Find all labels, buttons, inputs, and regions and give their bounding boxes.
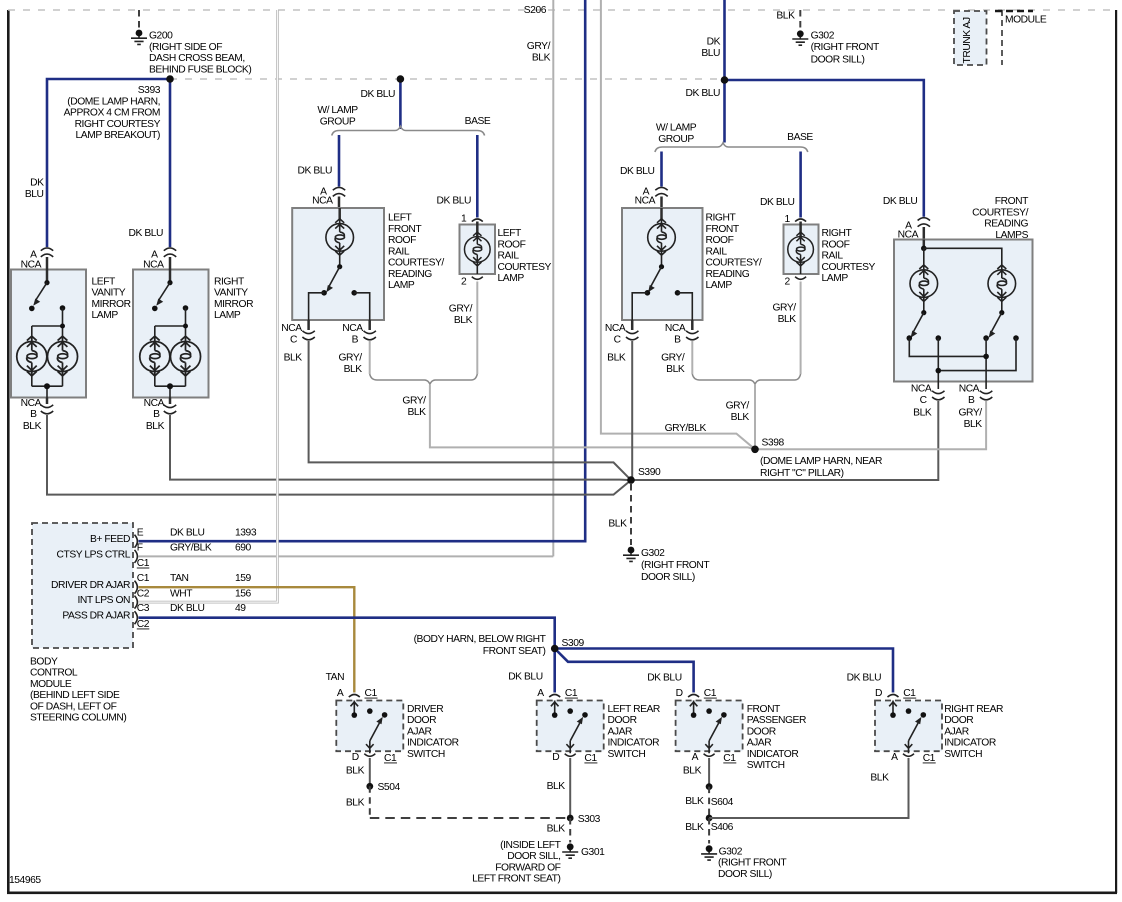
label left vanity [92,276,131,321]
svg-text:GRY/: GRY/ [772,303,796,314]
svg-text:RIGHT "C" PILLAR): RIGHT "C" PILLAR) [760,468,844,479]
svg-text:BLK: BLK [532,52,551,63]
label W/ LAMP GROUP right [656,123,697,145]
svg-text:NCA: NCA [21,398,42,409]
label G200 [149,31,251,76]
wire: DK BLU BASE branch to right roof rail lamp [799,152,802,218]
svg-text:D: D [875,688,882,699]
svg-text:GROUP: GROUP [658,134,694,145]
wire: DK BLU drop at left group junction [399,79,402,129]
svg-text:DK BLU: DK BLU [686,88,721,99]
svg-text:PASS DR AJAR: PASS DR AJAR [62,610,130,621]
svg-text:S604: S604 [711,797,734,808]
connector B NCA (GRY/BLK) right front roof lamp [661,320,698,375]
svg-text:BLK: BLK [547,781,566,792]
svg-text:BLK: BLK [913,408,932,419]
svg-text:DRIVER DR AJAR: DRIVER DR AJAR [51,580,130,591]
svg-text:SWITCH: SWITCH [407,749,445,760]
splice S303 [567,814,601,825]
label DK BLU below junction [686,88,721,99]
wire: BLK right rear switch to S406 [709,758,908,818]
svg-text:BLK: BLK [870,772,889,783]
svg-text:RIGHT REAR: RIGHT REAR [944,704,1003,715]
svg-text:MODULE: MODULE [30,679,72,690]
svg-text:COURTESY/: COURTESY/ [972,207,1028,218]
svg-text:DASH CROSS BEAM,: DASH CROSS BEAM, [149,53,245,64]
label left front roof lamp [388,213,444,292]
svg-text:AJAR: AJAR [944,726,969,737]
svg-text:D: D [552,752,559,763]
connector C NCA (BLK) left front roof lamp [281,320,314,364]
svg-text:DOOR: DOOR [944,715,973,726]
svg-text:1: 1 [461,214,467,225]
pin labels front passenger switch [676,688,737,764]
svg-text:GRY/: GRY/ [958,408,982,419]
wire: DK BLU S309 to right rear switch [555,649,893,693]
svg-text:C1: C1 [903,688,916,699]
svg-text:G302: G302 [641,548,665,559]
svg-text:DK BLU: DK BLU [129,228,164,239]
connector A NCA right front roof lamp [635,187,668,210]
svg-text:C1: C1 [137,573,150,584]
svg-text:INDICATOR: INDICATOR [608,738,660,749]
svg-text:DK BLU: DK BLU [647,673,682,684]
wire: GRY/BLK front courtesy lamps to S398 [755,401,986,449]
wire: dashed distribution rail y79 [170,78,725,80]
svg-text:NCA: NCA [665,323,686,334]
svg-text:DK BLU: DK BLU [437,196,472,207]
svg-text:LAMP: LAMP [498,273,525,284]
svg-text:C1: C1 [923,753,936,764]
wire: GRY/BLK merged right to S398 [754,385,756,449]
svg-text:BLK: BLK [685,796,704,807]
svg-text:BLU: BLU [25,189,44,200]
svg-text:NCA: NCA [281,323,302,334]
label W/ LAMP GROUP left [317,105,358,127]
connector A NCA left vanity [21,248,54,271]
svg-text:G200: G200 [149,31,173,42]
label TAN [326,672,344,683]
svg-text:S393: S393 [138,85,161,96]
wire: GRY/BLK left roof rail lamp to merge brace [476,282,478,375]
svg-text:DK BLU: DK BLU [170,527,205,538]
svg-text:FRONT: FRONT [747,704,781,715]
label G302 top [811,31,880,66]
wire: BLK front courtesy lamps to S390 [631,401,938,480]
svg-text:FRONT: FRONT [706,224,740,235]
wire: BLK left rear switch to S303 [547,758,571,818]
svg-text:DK BLU: DK BLU [170,603,205,614]
svg-text:VANITY: VANITY [214,288,248,299]
label GRY/BLK of S206 wire [527,41,551,63]
ground G301 [562,843,605,858]
svg-text:BLK: BLK [23,421,42,432]
wire: BLK front passenger switch to S604 [683,758,709,787]
svg-text:B+ FEED: B+ FEED [90,534,130,545]
svg-text:GROUP: GROUP [320,116,356,127]
ground G302 middle [623,547,639,562]
svg-text:DOOR SILL,: DOOR SILL, [507,851,560,862]
svg-text:DOOR: DOOR [407,715,436,726]
svg-text:NCA: NCA [911,384,932,395]
svg-text:1393: 1393 [235,527,257,538]
node: DK BLU junction dot [721,76,729,84]
svg-text:BLK: BLK [964,419,983,430]
svg-text:C1: C1 [584,753,597,764]
svg-text:(BODY HARN, BELOW RIGHT: (BODY HARN, BELOW RIGHT [414,634,547,645]
svg-text:DK BLU: DK BLU [361,89,396,100]
svg-text:C1: C1 [704,688,717,699]
wire: DK BLU 49 BCM C3 to S309 [139,618,555,649]
svg-text:LEFT: LEFT [388,213,413,224]
svg-text:DK BLU: DK BLU [298,166,333,177]
svg-text:INDICATOR: INDICATOR [944,738,996,749]
svg-text:LAMP: LAMP [822,273,849,284]
svg-text:APPROX 4 CM FROM: APPROX 4 CM FROM [64,108,160,119]
svg-text:ROOF: ROOF [706,235,734,246]
svg-text:LAMP: LAMP [706,280,733,291]
svg-text:690: 690 [235,543,252,554]
label DK BLU left vanity [25,178,44,200]
wire: BLK left vanity to S390 [47,415,631,495]
svg-text:INT LPS ON: INT LPS ON [77,595,130,606]
wire: dashed BLK S504 to S303 [346,786,570,818]
svg-text:GRY/: GRY/ [527,41,551,52]
ground G302 bottom [701,845,717,860]
lamp: left roof rail courtesy lamp [460,222,496,275]
brace: right lamp group options [655,143,808,152]
svg-text:BLK: BLK [454,315,473,326]
svg-text:GRY/BLK: GRY/BLK [170,543,212,554]
svg-text:49: 49 [235,603,246,614]
label DK BLU / 1 [760,197,795,225]
brace: left group GRY/BLK merge [370,374,478,384]
svg-text:BLK: BLK [778,314,797,325]
label BLK [608,519,627,530]
svg-text:BODY: BODY [30,656,58,667]
pins: BCM connector arcs [135,535,138,625]
connector C NCA (BLK) right front roof lamp [605,320,638,364]
connector A NCA left front roof lamp [312,187,345,210]
connector B NCA right vanity [144,398,177,433]
svg-text:LEFT FRONT SEAT): LEFT FRONT SEAT) [472,874,560,885]
label body control module [30,656,126,723]
svg-text:DRIVER: DRIVER [407,704,443,715]
svg-text:G301: G301 [581,847,605,858]
wire: GRY/BLK left front roof lamp to merge brace [369,341,371,374]
svg-text:BASE: BASE [465,116,491,127]
svg-text:GRY/: GRY/ [661,353,685,364]
svg-text:C3: C3 [137,603,150,614]
svg-text:S309: S309 [562,638,585,649]
svg-text:D: D [352,752,359,763]
svg-text:D: D [676,688,683,699]
svg-text:DK BLU: DK BLU [847,673,882,684]
wire: dashed BLK S604 to S406 [685,787,709,818]
splice S604 [706,783,734,808]
svg-text:159: 159 [235,573,252,584]
svg-text:(DOME LAMP HARN, NEAR: (DOME LAMP HARN, NEAR [760,456,882,467]
component: trunk ajar switch box (cut off) [954,11,987,65]
label GRY/BLK merged right [726,401,750,424]
svg-text:DK BLU: DK BLU [508,672,543,683]
module: body control module [32,523,133,648]
svg-text:S390: S390 [638,467,661,478]
svg-text:CTSY LPS CTRL: CTSY LPS CTRL [57,549,131,560]
svg-text:S504: S504 [378,782,401,793]
svg-text:BLK: BLK [346,765,365,776]
border frame right [1115,10,1117,893]
wire: G200 dashed lead [138,10,140,29]
wire: DK BLU S309 to front passenger switch [555,649,694,693]
svg-text:A: A [537,688,544,699]
svg-text:BLK: BLK [344,364,363,375]
node: junction dot on rail [397,75,405,83]
svg-text:LAMPS: LAMPS [995,230,1028,241]
brace: right group GRY/BLK merge [692,374,800,384]
connector A NCA right vanity [143,248,176,271]
svg-text:NCA: NCA [21,260,42,271]
wire: DK BLU S309 to left rear switch [553,649,556,693]
svg-text:(RIGHT SIDE OF: (RIGHT SIDE OF [149,42,222,53]
splice S393 [166,75,174,83]
svg-text:(DOME LAMP HARN,: (DOME LAMP HARN, [67,96,160,107]
switch: right rear door ajar indicator switch [875,695,942,757]
svg-text:W/ LAMP: W/ LAMP [656,123,697,134]
label DK BLU left group [361,89,396,100]
connector B NCA (GRY/BLK) front courtesy lamps [958,384,992,430]
connector 1 left roof rail lamp [472,219,483,222]
label DK BLU right vanity [129,228,164,239]
pin labels driver switch [337,688,397,764]
wire: DK BLU from S393 to left vanity [47,79,170,247]
svg-text:BLK: BLK [607,353,626,364]
svg-text:READING: READING [984,219,1028,230]
svg-text:DOOR SILL): DOOR SILL) [718,869,772,880]
svg-text:DOOR SILL): DOOR SILL) [811,55,865,66]
svg-text:(RIGHT FRONT: (RIGHT FRONT [811,42,880,53]
svg-text:GRY/BLK: GRY/BLK [665,423,707,434]
label right front roof lamp [706,213,762,292]
splice S398 [751,446,759,454]
svg-text:(RIGHT FRONT: (RIGHT FRONT [718,858,787,869]
svg-text:LEFT: LEFT [92,276,117,287]
svg-text:NCA: NCA [143,260,164,271]
svg-text:2: 2 [461,277,467,288]
label left rear switch [608,704,660,760]
pin labels left rear switch [537,688,597,764]
label right vanity [214,276,253,321]
switch: left rear door ajar indicator switch [537,695,604,757]
svg-text:VANITY: VANITY [92,288,126,299]
svg-text:S398: S398 [762,438,785,449]
svg-text:DK: DK [707,37,721,48]
connector B NCA left vanity [21,398,54,433]
splice S309 [551,645,559,653]
svg-text:RIGHT: RIGHT [706,213,737,224]
svg-text:A: A [692,752,699,763]
label BASE left [465,116,491,127]
wire: DK BLU junction down to right lamp group brace [723,80,726,143]
svg-text:READING: READING [388,269,432,280]
svg-text:MODULE: MODULE [1005,15,1047,26]
label DK BLU left rear [508,672,543,683]
svg-text:S406: S406 [711,822,734,833]
component: control module box edge (cut off) [995,10,1047,65]
wire: BLK driver switch to S504 [346,758,370,786]
svg-text:C1: C1 [365,688,378,699]
svg-text:BLK: BLK [666,364,685,375]
svg-text:1: 1 [785,214,791,225]
lamp: right roof rail courtesy lamp [784,222,819,275]
svg-text:A: A [891,752,898,763]
label DK BLU [620,166,655,177]
wire: dashed BLK S406 to G302 [685,818,709,844]
svg-text:GRY/: GRY/ [338,353,362,364]
svg-text:BLK: BLK [407,407,426,418]
svg-text:BLU: BLU [701,48,720,59]
wire: TAN 159 BCM C1 to driver door switch [139,587,355,692]
svg-text:PASSENGER: PASSENGER [747,715,806,726]
label GRY/BLK small lamp right [772,303,796,325]
svg-text:DOOR: DOOR [747,726,776,737]
switch: driver door ajar indicator switch [336,695,403,757]
label S206 (cut at page top) [524,5,547,16]
connector 2 left roof rail lamp [461,277,483,288]
ground G302 top [792,30,808,45]
svg-text:DK BLU: DK BLU [620,166,655,177]
border frame left [7,10,10,893]
svg-text:C1: C1 [137,558,150,569]
svg-text:(INSIDE LEFT: (INSIDE LEFT [500,840,562,851]
svg-text:SWITCH: SWITCH [944,749,982,760]
label DK BLU [298,166,333,177]
svg-text:C: C [614,335,622,346]
svg-text:154965: 154965 [9,875,41,886]
wire: BLK right vanity to S390 [170,415,631,480]
svg-text:F: F [137,543,143,554]
lamp: left front roof rail courtesy/reading lamp [292,208,384,320]
svg-text:BLK: BLK [284,353,303,364]
svg-text:S206: S206 [524,5,547,16]
svg-text:NCA: NCA [959,384,980,395]
svg-text:BLK: BLK [547,824,566,835]
wire: dashed BLK lead to G302 top [799,10,801,30]
svg-text:LEFT: LEFT [498,228,523,239]
svg-text:BEHIND FUSE BLOCK): BEHIND FUSE BLOCK) [149,64,251,75]
svg-text:B: B [674,335,681,346]
svg-text:GRY/: GRY/ [449,304,473,315]
wire: DK BLU to right front roof lamp [660,152,663,187]
svg-text:FRONT: FRONT [995,196,1029,207]
pin labels right rear switch [875,688,936,764]
wire: GRY/BLK right front roof lamp to merge brace [691,341,693,374]
wire: GRY/BLK 690 BCM F to riser [139,555,554,557]
svg-text:FORWARD OF: FORWARD OF [495,862,560,873]
svg-text:AJAR: AJAR [407,726,432,737]
wire: BLK right front roof lamp down to S390 [631,341,633,480]
svg-text:ROOF: ROOF [498,239,526,250]
svg-text:(RIGHT FRONT: (RIGHT FRONT [641,560,710,571]
label GRY/BLK small lamp left [449,304,473,326]
label S393 [64,85,161,141]
svg-text:STEERING COLUMN): STEERING COLUMN) [30,713,126,724]
svg-text:BLK: BLK [731,412,750,423]
svg-text:WHT: WHT [170,588,193,599]
wire: DK BLU to left front roof lamp [338,135,341,187]
svg-text:C1: C1 [565,688,578,699]
svg-text:BLK: BLK [685,822,704,833]
svg-text:RIGHT: RIGHT [214,276,245,287]
label front passenger switch [747,704,806,771]
label G302 bottom [718,846,787,880]
svg-text:LAMP BREAKOUT): LAMP BREAKOUT) [76,130,161,141]
label BLK top G302 [776,11,795,22]
svg-text:NCA: NCA [342,323,363,334]
wire: DK BLU feed from off-page to junction [723,0,726,80]
svg-text:2: 2 [785,277,791,288]
svg-text:RAIL: RAIL [822,251,844,262]
lamp: right front roof rail courtesy/reading lamp [622,208,703,320]
svg-text:C2: C2 [137,588,150,599]
wire: GRY/BLK right roof rail lamp to merge brace [800,282,802,375]
svg-text:BLK: BLK [146,421,165,432]
label G301 location [472,840,561,885]
splice S504 [366,782,400,793]
wire: BLK left front roof lamp to S390 [309,341,631,480]
svg-text:156: 156 [235,588,252,599]
wire: GRY/BLK vertical from off-page down to S398 [601,0,755,449]
svg-text:TAN: TAN [326,672,344,683]
svg-text:CONTROL: CONTROL [30,668,78,679]
svg-text:C: C [920,395,928,406]
svg-text:RAIL: RAIL [498,251,520,262]
label S390 [638,467,661,478]
brace: left lamp group options [332,126,485,135]
label DK BLU above junction [701,37,720,59]
wire: WHT 156 BCM C2 riser to top [139,10,278,602]
ground G200 [131,30,147,45]
svg-text:G302: G302 [719,846,743,857]
svg-text:A: A [337,688,344,699]
svg-text:DK: DK [30,178,44,189]
svg-text:INDICATOR: INDICATOR [747,749,799,760]
svg-text:GRY/: GRY/ [402,395,426,406]
label right roof rail lamp [822,228,876,284]
connector C NCA (BLK) front courtesy lamps [911,384,945,419]
svg-text:DK BLU: DK BLU [760,197,795,208]
svg-text:DK BLU: DK BLU [883,196,918,207]
svg-text:NCA: NCA [144,398,165,409]
svg-text:NCA: NCA [605,323,626,334]
connector 2 right roof rail lamp [785,277,807,288]
svg-text:B: B [968,395,975,406]
svg-text:BLK: BLK [776,11,795,22]
label G302 middle [641,548,710,583]
svg-text:AJAR: AJAR [747,738,772,749]
svg-text:BLK: BLK [683,765,702,776]
wire name labels BCM [170,527,257,614]
svg-text:LAMP: LAMP [92,310,119,321]
lamp: left vanity mirror lamp [11,257,86,398]
svg-text:RAIL: RAIL [706,246,728,257]
svg-text:COURTESY: COURTESY [822,262,876,273]
svg-text:TRUNK AJ: TRUNK AJ [962,17,973,63]
label right rear switch [944,704,1003,760]
svg-text:NCA: NCA [312,195,333,206]
svg-text:C1: C1 [384,753,397,764]
svg-text:GRY/: GRY/ [726,401,750,412]
